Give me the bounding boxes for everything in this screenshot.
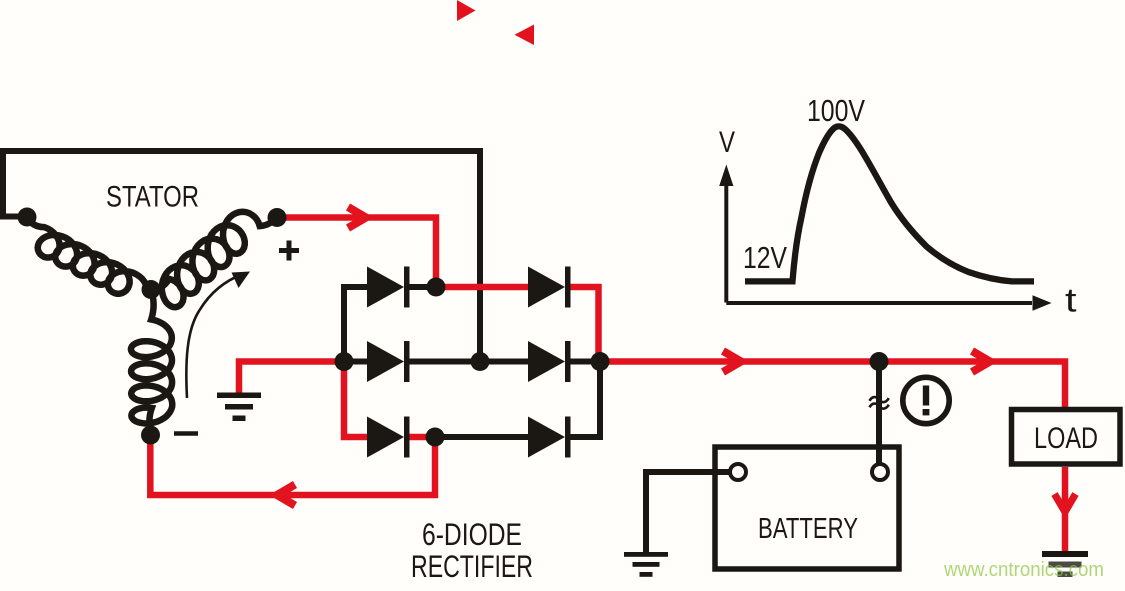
junction dot: stator center node [142, 280, 161, 299]
wire: load to ground (red) [1062, 467, 1069, 551]
wire: stator left node to top bus and down to rectifier mid column [3, 151, 480, 362]
svg-text:V: V [719, 126, 735, 159]
junction dot: stator left node [18, 208, 37, 227]
wire: top-left diode anode branch [344, 287, 367, 362]
svg-text:100V: 100V [807, 94, 866, 128]
wire: bottom node return loop to stator - (red) [150, 435, 435, 495]
stator winding phase B (right coil) [151, 212, 277, 307]
stator winding phase C (bottom coil) [131, 290, 172, 436]
red triangle marker (right-pointing) [457, 0, 476, 21]
wire: bottom-left diode cathode to node (red) [409, 434, 435, 441]
wire: top-left diode cathode to node [409, 284, 435, 290]
current arrow chevron right (bus 1) [723, 351, 741, 372]
diode D2 (top-right) [528, 267, 571, 308]
current arrow chevron right (stator + feed) [348, 207, 366, 228]
ground symbol: load ground [1042, 551, 1088, 577]
svg-text:12V: 12V [743, 241, 788, 275]
wire: bus junction down to battery + terminal [876, 362, 882, 466]
svg-text:www.cntronics.com: www.cntronics.com [943, 559, 1104, 581]
current arrow chevron right (bus 2) [972, 351, 990, 372]
junction dot: stator - node [141, 426, 160, 445]
svg-text:STATOR: STATOR [106, 180, 199, 213]
ground symbol: stator ground [217, 393, 261, 422]
load box [1012, 410, 1121, 465]
junction dot: node top row [427, 278, 446, 297]
battery box [715, 447, 899, 569]
junction dot: node mid-center [471, 352, 490, 371]
diode D5 (bottom-left) [367, 417, 410, 458]
junction dot: node battery tap [870, 352, 889, 371]
current arrow chevron down (load current) [1055, 494, 1076, 512]
wire: mid-left node down to bottom-left diode (red) [344, 362, 367, 438]
waveform t axis [726, 301, 1032, 305]
waveform V axis [724, 184, 728, 303]
junction dot: node bottom row [426, 428, 445, 447]
wire: right column mid to bottom row [570, 362, 600, 438]
plus sign (phase B terminal) [279, 241, 299, 261]
stator winding phase A (left coil) [27, 217, 151, 294]
wire: bottom row node to bottom-right diode [435, 434, 528, 440]
svg-text:RECTIFIER: RECTIFIER [411, 548, 533, 584]
wire-break symbol (approx. equal tildes) [870, 397, 889, 409]
wire: mid row black segments [344, 359, 367, 365]
wire: stator + to rectifier top node (red) [277, 218, 436, 288]
junction dot: node mid-right [591, 352, 610, 371]
red triangle marker (left-pointing) [515, 25, 535, 46]
wire: top-right diode cathode down to mid-right node (red) [570, 287, 599, 362]
curved arrow (field rotation) [186, 275, 241, 399]
junction dot: node mid-left [335, 352, 354, 371]
svg-text:LOAD: LOAD [1034, 422, 1098, 455]
ground symbol: battery ground [624, 552, 668, 577]
diode D3 (mid-left) [367, 341, 410, 382]
wire: ground stub to mid-left node (red) [239, 362, 344, 393]
junction dot: stator + node [268, 208, 287, 227]
minus sign (phase C terminal) [174, 431, 198, 436]
battery + terminal [872, 464, 888, 480]
diode D1 (top-left) [367, 267, 410, 308]
current arrow chevron left (return) [277, 485, 295, 506]
svg-text:t: t [1065, 282, 1077, 319]
wire: top row node to top-right diode (red) [435, 284, 528, 291]
wire: main red bus to load [600, 362, 1065, 408]
diode D6 (bottom-right) [528, 417, 571, 458]
waveform curve [745, 126, 1034, 281]
diode D4 (mid-right) [528, 341, 571, 382]
svg-text:BATTERY: BATTERY [758, 513, 858, 545]
battery - terminal [730, 464, 746, 480]
svg-text:6-DIODE: 6-DIODE [422, 516, 522, 552]
wire: battery - terminal to ground [646, 472, 731, 552]
warning symbol: circle with exclamation [903, 377, 949, 423]
